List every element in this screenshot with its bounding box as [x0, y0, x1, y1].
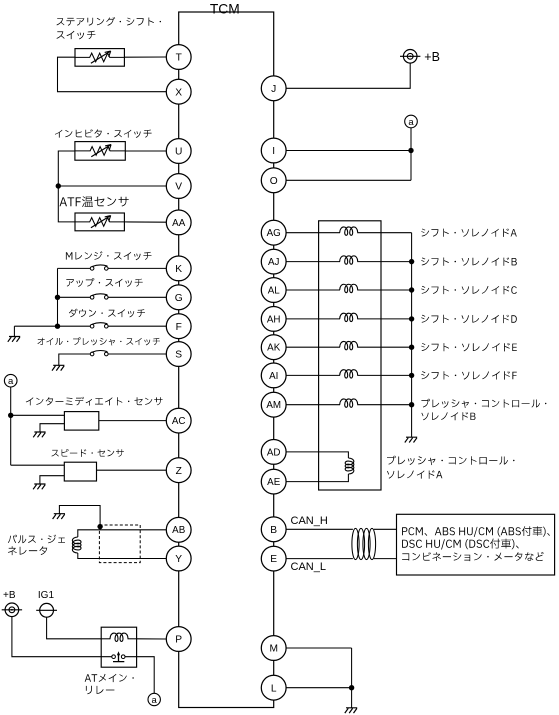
- svg-text:X: X: [175, 87, 182, 98]
- wire bus to pin V: [58, 185, 166, 187]
- node I junction on a-bus: [408, 148, 413, 153]
- pin AA: [166, 210, 191, 235]
- svg-text:U: U: [175, 147, 182, 158]
- wire solenoid L1 to common bus: [357, 232, 411, 234]
- svg-text:Y: Y: [175, 554, 182, 565]
- solenoid coil L5: [340, 341, 358, 349]
- wire pulse generator to pin Y: [78, 553, 167, 559]
- pin O: [261, 168, 286, 193]
- pin AC: [166, 408, 191, 433]
- pin F: [166, 314, 191, 339]
- svg-text:+B: +B: [3, 590, 16, 601]
- label shift solenoid B: [421, 257, 517, 265]
- ground oil pressure switch: [52, 365, 64, 370]
- wire relay coil leads: [101, 638, 110, 640]
- solenoid coil L1: [340, 227, 358, 235]
- wire pin M to ground bus: [286, 647, 352, 649]
- label pulse generator line1: [8, 535, 65, 544]
- pin AD: [261, 440, 286, 465]
- wire resistor R1 to pin T: [124, 56, 166, 58]
- svg-text:AC: AC: [172, 416, 186, 427]
- svg-text:TCM: TCM: [210, 1, 240, 16]
- wire connector-a bus down: [10, 387, 12, 465]
- svg-text:O: O: [270, 176, 278, 187]
- pin V: [166, 174, 191, 199]
- PCM / ABS / DSC module box: [397, 514, 555, 575]
- svg-text:a: a: [152, 695, 158, 706]
- wire solenoid L6 to common bus: [357, 374, 411, 376]
- svg-text:AB: AB: [172, 525, 186, 536]
- switch SW2 up switch: [90, 294, 108, 299]
- solenoid coil L6: [340, 370, 358, 378]
- wire a-bus to intermediate sensor: [11, 414, 65, 416]
- wire pin AI to solenoid coil: [286, 374, 340, 376]
- ground pulse generator shield: [53, 514, 65, 519]
- switch SW4 oil pressure switch: [90, 351, 108, 356]
- label intermediate sensor: [26, 397, 163, 406]
- svg-text:B: B: [270, 525, 277, 536]
- node bus-G junction: [55, 295, 60, 300]
- wire pin J to +B: [286, 63, 410, 88]
- label shift solenoid C: [421, 286, 517, 294]
- svg-text:CAN_H: CAN_H: [291, 515, 328, 527]
- wire pin E CAN_L: [286, 558, 353, 560]
- wire SW2 left to bus: [58, 296, 91, 298]
- pin G: [166, 285, 191, 310]
- solenoid assembly body: [319, 221, 381, 490]
- svg-text:AE: AE: [267, 477, 281, 488]
- svg-text:a: a: [408, 117, 414, 128]
- wire connector-a down to pin O row: [410, 128, 412, 181]
- label PCM box line3: [402, 552, 544, 561]
- power symbol +B top right: [400, 50, 420, 64]
- ground intermediate sensor: [33, 432, 45, 437]
- solenoid coil L3: [340, 284, 358, 292]
- node bus junction row AH: [409, 316, 414, 321]
- label shift solenoid E: [421, 343, 517, 351]
- switch SW3 down switch: [90, 323, 108, 328]
- pin Y: [166, 546, 191, 571]
- label steering shift switch line2: [57, 31, 96, 40]
- relay K1 AT main relay body: [101, 627, 136, 667]
- connector a (top right): [405, 115, 418, 128]
- solenoid coil L4: [340, 313, 358, 321]
- ground speed sensor: [33, 484, 45, 489]
- wire intermediate sensor to pin AC: [99, 420, 167, 422]
- solenoid coil L2: [340, 256, 358, 264]
- node bus junction row AL: [409, 287, 414, 292]
- wire switch bus vertical: [57, 268, 59, 326]
- svg-text:F: F: [176, 322, 182, 333]
- pin AG: [261, 220, 286, 245]
- shield box (dashed) around pulse generator wires: [99, 525, 140, 563]
- power symbol IG1 (ignition): [36, 603, 57, 617]
- switch SW1 M range: [90, 265, 108, 270]
- node bus junction row AM: [409, 402, 414, 407]
- ground switch bus: [8, 337, 20, 342]
- svg-text:I: I: [272, 146, 275, 157]
- ground solenoid common bus: [405, 437, 417, 442]
- wire pin O to a-bus: [286, 179, 411, 181]
- intermediate sensor body: [64, 412, 98, 431]
- label PCM box line2: [402, 539, 519, 550]
- resistor R1 steering shift switch (variable): [75, 49, 124, 67]
- svg-text:AJ: AJ: [268, 257, 280, 268]
- label M range switch: [66, 251, 152, 260]
- label pressure control solenoid B line1: [421, 399, 546, 408]
- wire ground stub for switch bus: [13, 326, 15, 336]
- label pulse generator line2: [8, 546, 47, 555]
- wire switch SW4 to pin S: [108, 353, 166, 355]
- label oil pressure switch: [38, 337, 161, 345]
- svg-text:M: M: [269, 644, 278, 655]
- wire pin B CAN_H: [286, 528, 353, 530]
- label inhibitor switch: [55, 129, 152, 138]
- wire resistor R3 to pin AA: [124, 221, 166, 223]
- pin AJ: [261, 249, 286, 274]
- wire pin AB to pulse generator: [78, 530, 167, 537]
- wire pin L to ground bus: [286, 687, 352, 689]
- pin M: [261, 636, 286, 661]
- label up switch: [66, 278, 142, 287]
- pin U: [166, 139, 191, 164]
- wire switch SW3 to pin F: [108, 325, 166, 327]
- svg-text:AD: AD: [267, 447, 281, 458]
- pin AE: [261, 469, 286, 494]
- label ATF temp sensor: [60, 196, 129, 207]
- svg-text:AL: AL: [268, 285, 281, 296]
- label PCM box line1: [402, 526, 550, 537]
- pin J: [261, 76, 286, 101]
- pin E: [261, 546, 286, 571]
- svg-text:AA: AA: [172, 218, 186, 229]
- pin AB: [166, 517, 191, 542]
- wire SW1 left to bus: [58, 267, 91, 269]
- wire solenoid common bus vertical: [411, 233, 413, 438]
- wire SW3 row left to ground stub: [14, 325, 90, 327]
- label shift solenoid A: [421, 229, 517, 237]
- wire intermediate sensor ground lead: [40, 424, 64, 432]
- wire pin I to a-bus: [286, 150, 411, 152]
- twisted pair symbol on CAN bus: [352, 528, 376, 559]
- wire speed sensor to pin Z: [97, 469, 167, 471]
- wire CAN_L to PCM box: [374, 558, 397, 560]
- svg-text:S: S: [175, 350, 182, 361]
- label speed sensor: [52, 449, 124, 457]
- svg-text:L: L: [271, 683, 277, 694]
- label pressure control solenoid B line2: [421, 412, 475, 420]
- pin P: [166, 627, 191, 652]
- wire solenoid L7 to common bus: [357, 404, 411, 406]
- node L junction: [349, 685, 354, 690]
- wire pin AL to solenoid coil: [286, 289, 340, 291]
- relay K1 coil: [110, 633, 128, 641]
- label AT main relay line2: [86, 686, 115, 694]
- node bus-F junction: [55, 324, 60, 329]
- resistor R3 ATF temp sensor (variable): [75, 213, 124, 231]
- pin B: [261, 517, 286, 542]
- wire relay contact to connector a: [125, 657, 154, 694]
- wire CAN_H to PCM box: [374, 528, 397, 530]
- svg-text:IG1: IG1: [38, 590, 55, 601]
- label steering shift switch line1: [57, 17, 162, 26]
- wire resistor R2 to pin U: [125, 150, 166, 152]
- pin AI: [261, 363, 286, 388]
- pin AK: [261, 335, 286, 360]
- wire SW4 left to ground: [59, 354, 90, 365]
- wire pin AK to solenoid coil: [286, 346, 340, 348]
- node bus junction row AJ: [409, 259, 414, 264]
- svg-text:AH: AH: [267, 314, 281, 325]
- node shield ground junction: [97, 524, 102, 529]
- label AT main relay line1: [85, 674, 134, 682]
- svg-text:AI: AI: [269, 371, 278, 382]
- node bus junction row AK: [409, 345, 414, 350]
- svg-text:+B: +B: [424, 50, 440, 64]
- svg-text:Z: Z: [176, 466, 182, 477]
- wire IG1 to relay coil: [47, 617, 102, 639]
- connector a (below relay): [148, 693, 160, 706]
- node bus junction row AI: [409, 373, 414, 378]
- connector a (left): [4, 374, 17, 387]
- pin Z: [166, 458, 191, 483]
- label pressure control solenoid A line2: [387, 470, 442, 478]
- svg-text:T: T: [176, 53, 182, 64]
- svg-text:E: E: [270, 554, 277, 565]
- pin T: [166, 45, 191, 70]
- pin AM: [261, 392, 286, 417]
- wire solenoid L4 to common bus: [357, 318, 411, 320]
- pin K: [166, 256, 191, 281]
- wire +B to relay contact: [12, 617, 112, 657]
- TCM module body (rectangle): [179, 12, 274, 708]
- label pressure control solenoid A line1: [387, 456, 515, 465]
- pin AL: [261, 278, 286, 303]
- wire M/L ground bus vertical: [351, 648, 353, 708]
- svg-text:CAN_L: CAN_L: [291, 561, 326, 573]
- label shift solenoid D: [421, 315, 517, 323]
- svg-text:G: G: [175, 293, 183, 304]
- node a-bus junction to intermediate sensor: [8, 413, 13, 418]
- pin AH: [261, 307, 286, 332]
- wire switch SW1 to pin K: [108, 267, 166, 269]
- label down switch: [69, 309, 145, 318]
- solenoid coil L7: [340, 399, 358, 407]
- ground M/L bus: [345, 708, 357, 713]
- relay K1 contact: [112, 651, 125, 661]
- wire R1 left to pin X: [58, 57, 167, 91]
- svg-text:AG: AG: [267, 228, 281, 239]
- svg-text:a: a: [8, 376, 14, 387]
- power symbol +B lower left: [2, 603, 22, 617]
- svg-text:AK: AK: [267, 343, 281, 354]
- wire pin AG to solenoid coil: [286, 232, 340, 234]
- pulse generator coil G1: [72, 537, 81, 553]
- node V-return junction: [56, 183, 61, 188]
- wire pin AD to coil L8: [286, 452, 348, 458]
- wire pin AM to solenoid coil: [286, 404, 340, 406]
- svg-text:K: K: [175, 264, 182, 275]
- resistor R2 inhibitor switch (variable): [75, 142, 125, 161]
- wire coil L8 to pin AE: [286, 474, 348, 482]
- wire shield ground: [59, 506, 100, 530]
- pin I: [261, 138, 286, 163]
- svg-text:J: J: [271, 84, 276, 95]
- pin S: [166, 342, 191, 367]
- svg-text:V: V: [175, 182, 182, 193]
- svg-text:P: P: [175, 635, 182, 646]
- pin X: [166, 79, 191, 104]
- wire R2 left down to sensor bus: [58, 151, 75, 222]
- speed sensor body: [64, 462, 96, 481]
- wire solenoid L2 to common bus: [357, 261, 411, 263]
- wire pin AJ to solenoid coil: [286, 261, 340, 263]
- wire speed sensor ground lead: [40, 476, 64, 484]
- wire solenoid L3 to common bus: [357, 289, 411, 291]
- pin L: [261, 675, 286, 700]
- wire relay to pin P: [137, 638, 167, 640]
- svg-text:AM: AM: [266, 400, 281, 411]
- wire pin AH to solenoid coil: [286, 318, 340, 320]
- wire solenoid L5 to common bus: [357, 346, 411, 348]
- wire switch SW2 to pin G: [108, 296, 166, 298]
- label shift solenoid F: [421, 371, 517, 379]
- pressure control solenoid A coil L8: [345, 458, 354, 474]
- wire a-bus to speed sensor: [11, 464, 65, 466]
